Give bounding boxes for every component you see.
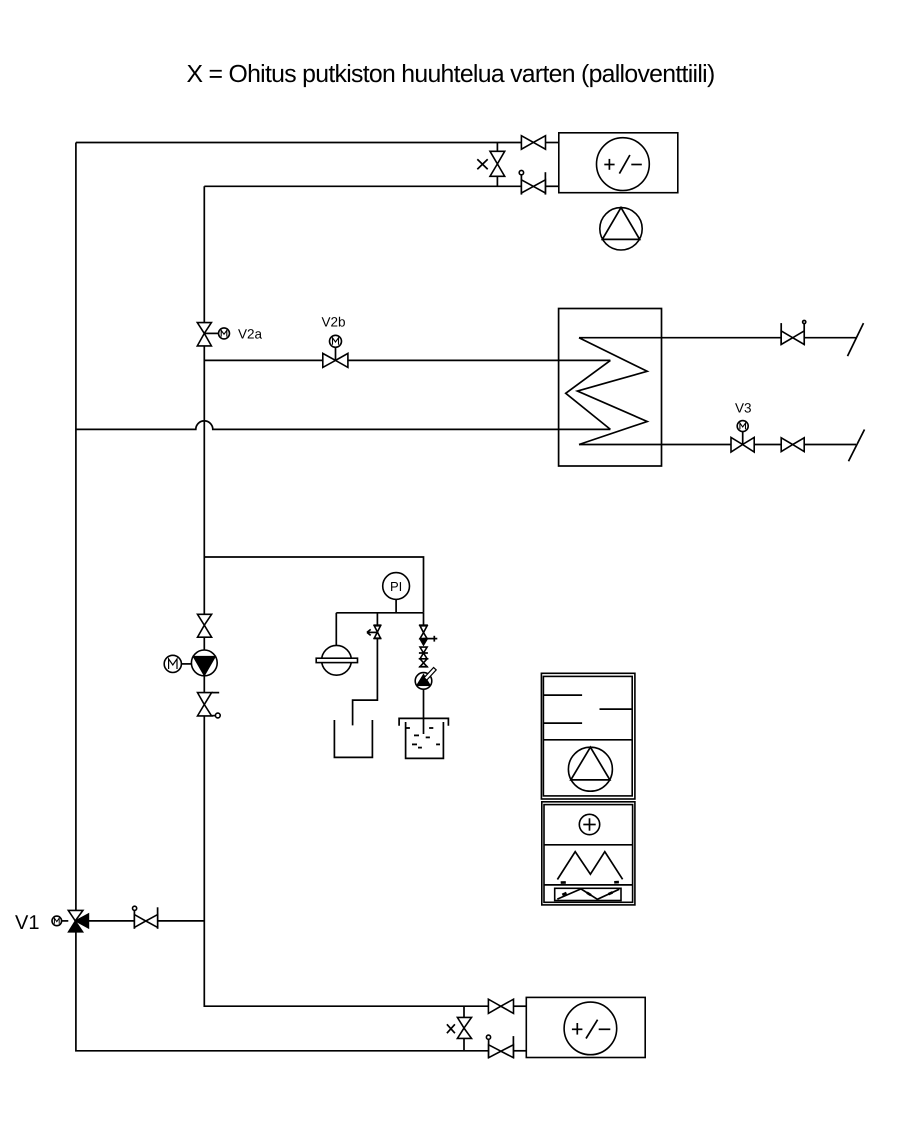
drain stack black cone bbox=[420, 639, 428, 646]
svg-text:V3: V3 bbox=[735, 401, 752, 416]
air handling unit upper casing bbox=[541, 673, 635, 799]
svg-text:X = Ohitus putkiston huuhtelua: X = Ohitus putkiston huuhtelua varten (p… bbox=[186, 61, 714, 88]
valve V1 three-way bbox=[68, 910, 88, 932]
valve above pump bbox=[198, 614, 212, 637]
wire PI stem bbox=[395, 600, 397, 613]
valve bottom supply (bowtie) bbox=[488, 999, 513, 1013]
energy meter circle bottom bbox=[564, 1002, 617, 1055]
valve with arrow (safety) bbox=[367, 625, 382, 638]
wire top bypass lower stem bbox=[496, 176, 498, 186]
heat exchanger primary coil bbox=[577, 338, 647, 445]
waste tank right rim bbox=[399, 718, 448, 725]
expansion vessel bbox=[316, 645, 357, 675]
wire after second valve bbox=[804, 444, 856, 446]
wire exchanger top outlet after valve bbox=[804, 337, 856, 339]
drain stack vent crossbar with plus bbox=[424, 636, 438, 642]
drain stack hourglass valve bbox=[420, 626, 427, 639]
wire stem upper valve to meter box bbox=[546, 142, 559, 144]
wire top bypass stem x=497.4 bbox=[496, 143, 498, 152]
valve V3 bbox=[731, 437, 754, 452]
wire exchanger top outlet y=337.7 bbox=[579, 337, 781, 339]
wire return pipe y=186.3 bbox=[204, 185, 521, 187]
wire drain stack upper stem bbox=[423, 613, 425, 625]
wire drain stack lower stem into tank bbox=[423, 689, 425, 734]
wire V1 branch valve to riser bbox=[158, 920, 205, 922]
svg-text:V2a: V2a bbox=[238, 327, 263, 342]
louver lines bbox=[543, 695, 632, 723]
wire valve to pump stem bbox=[203, 637, 205, 650]
wire between V3 and second valve bbox=[754, 444, 781, 446]
valve top bypass X-marked bbox=[477, 151, 504, 176]
energy meter circle top bbox=[597, 138, 650, 191]
wire exchanger bottom outlet y=444.5 bbox=[579, 444, 731, 446]
meter box bottom bbox=[526, 997, 645, 1057]
wire arrow-valve branch upper bbox=[376, 613, 378, 625]
coil zigzag bbox=[557, 852, 622, 883]
valve top supply (bowtie) bbox=[521, 136, 545, 150]
svg-text:V1: V1 bbox=[15, 912, 39, 934]
wire arrow-valve branch drain bbox=[353, 639, 378, 726]
heater section divider bbox=[544, 844, 633, 846]
pipe break slash top bbox=[848, 323, 864, 356]
valve top return with end bars and pin bbox=[519, 170, 545, 194]
valve V2b motor head bbox=[330, 335, 342, 360]
wire left main riser x=75.9 bbox=[75, 143, 77, 911]
heater circle plus bbox=[579, 814, 599, 834]
valve bottom outlet second bbox=[781, 438, 804, 452]
heat exchanger shell bbox=[559, 309, 662, 467]
valve V2a bbox=[197, 323, 229, 346]
wire secondary riser pump to bottom corner bbox=[204, 716, 488, 1006]
valve top outlet with end bars bbox=[781, 320, 806, 345]
fan symbol bbox=[568, 747, 612, 791]
title text bbox=[186, 61, 714, 88]
pipe break slash bottom bbox=[849, 430, 865, 462]
wire secondary riser x=204.3 upper bbox=[203, 186, 205, 322]
sampling cock circle bbox=[415, 668, 436, 690]
svg-text:PI: PI bbox=[390, 579, 402, 594]
air handling unit lower casing bbox=[542, 802, 635, 905]
pump P1 bbox=[191, 650, 217, 676]
wire top supply pipe y=142.5 bbox=[76, 142, 522, 144]
wire lower branch y=429.4 with hop over riser bbox=[76, 421, 611, 430]
svg-text:V2b: V2b bbox=[322, 315, 346, 330]
wire bottom bypass lower stem bbox=[463, 1038, 465, 1050]
gauge PI bbox=[383, 573, 410, 600]
valve bottom bypass X-marked bbox=[447, 1017, 472, 1038]
open tank left bbox=[334, 720, 372, 757]
wire bottom bypass stem x=464 bbox=[463, 1006, 465, 1017]
fan section divider bbox=[543, 739, 632, 741]
waste tank right beaker bbox=[406, 722, 444, 758]
pump motor M bbox=[164, 655, 191, 672]
damper section divider bbox=[544, 884, 633, 886]
wire pump to valve stem bbox=[203, 676, 205, 693]
wire left main riser lower part bbox=[76, 932, 489, 1051]
wire V2b branch into exchanger bbox=[348, 359, 611, 361]
wire V1 branch y=920.9 bbox=[89, 920, 134, 922]
valve V1 motor head bbox=[52, 916, 68, 926]
drain stack top bar bbox=[419, 624, 428, 626]
valve on V1 branch with end bars bbox=[133, 906, 158, 929]
wire V2b branch y=360.4 bbox=[204, 359, 322, 361]
wire expansion branch y=557 bbox=[204, 557, 423, 613]
wire stem lower valve to meter box bbox=[545, 185, 558, 187]
meter box top bbox=[559, 133, 678, 193]
wire vessel stem bbox=[335, 613, 337, 646]
wire gauge header y=612.8 bbox=[336, 612, 423, 614]
valve V3 motor head bbox=[737, 421, 748, 445]
valve V2b bbox=[323, 353, 348, 367]
wire bottom meter lower stem bbox=[514, 1050, 527, 1052]
pump symbol top right bbox=[600, 208, 642, 250]
valve below pump with lever bbox=[198, 693, 221, 718]
waste tank liquid dashes bbox=[406, 728, 440, 748]
drain stack double hourglass bbox=[419, 647, 428, 667]
valve bottom return with end bars and pin bbox=[486, 1035, 513, 1058]
wire secondary riser between V2a and pump valve bbox=[203, 346, 205, 614]
damper box bbox=[555, 888, 621, 900]
wire bottom meter upper stem bbox=[514, 1005, 527, 1007]
heat exchanger secondary coil bbox=[566, 360, 611, 429]
